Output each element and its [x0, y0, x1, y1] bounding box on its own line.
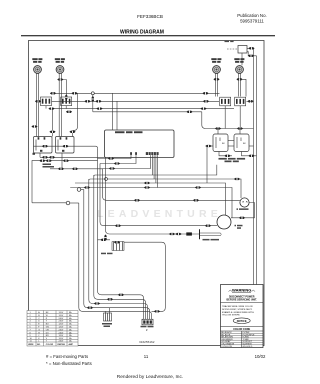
svg-text:Y-YELLOW: Y-YELLOW [221, 346, 232, 348]
svg-text:#: # [146, 328, 148, 332]
connector on motor wire [115, 225, 121, 227]
connector h5 b [49, 156, 55, 158]
connector bundle b1 [118, 294, 124, 296]
connector on SU1 leads [31, 125, 37, 127]
svg-text:GD-GOLD: GD-GOLD [243, 346, 253, 348]
relay K1 label [225, 41, 234, 43]
chart table [27, 311, 78, 347]
wire limiter bottoms [46, 106, 66, 109]
lock motor label [102, 323, 112, 327]
connector r2 [234, 178, 240, 180]
wire EOC left pins [98, 155, 151, 169]
svg-text:NO.: NO. [37, 344, 41, 346]
connector on bus h2 left [95, 100, 101, 102]
surface unit SU1 [34, 66, 42, 74]
terminal ring T2 [66, 201, 70, 205]
wire bundle verticals [70, 148, 240, 319]
surface unit SU1 label [32, 58, 42, 63]
wire S1 S2 feeds [202, 112, 257, 156]
surface unit SU4 [236, 66, 244, 74]
connector relay b [248, 55, 254, 57]
connector relay a [248, 47, 254, 49]
svg-text:BK: BK [222, 143, 225, 145]
lock motor component [104, 308, 112, 321]
connector block label [141, 326, 154, 328]
connector on bus h3 left [48, 107, 54, 109]
svg-text:240V: 240V [59, 332, 64, 334]
connector h6 c [63, 160, 69, 162]
svg-text:WIRING DIAGRAM: WIRING DIAGRAM [120, 30, 164, 36]
svg-text:120V: 120V [59, 335, 64, 337]
svg-text:NOTICE: NOTICE [237, 319, 247, 323]
svg-text:120V: 120V [59, 312, 64, 314]
connector inside SW2 [62, 145, 68, 147]
wire relay dashed lead [227, 48, 238, 50]
svg-text:BK: BK [243, 143, 246, 145]
motor label [235, 225, 243, 229]
svg-text:5995379111: 5995379111 [240, 18, 264, 23]
wire SU3 SU4 leads [215, 73, 246, 96]
wire EOC right pins [152, 155, 157, 187]
svg-text:W: W [46, 315, 48, 317]
connector r1 [195, 186, 201, 188]
wire lamp to motor link [231, 203, 254, 218]
connector vertical on bundle [104, 234, 106, 240]
wire cross runs to right side [70, 165, 241, 218]
svg-text:RATING: RATING [58, 343, 66, 346]
terminal ring T1 [77, 188, 81, 192]
limiter H4 [235, 97, 246, 106]
wire loop from oven light to lock [124, 242, 165, 311]
surface unit SU4 label [234, 58, 244, 63]
junction node J2 [105, 178, 108, 181]
connector h5 a [42, 156, 48, 158]
svg-text:120V: 120V [59, 315, 64, 317]
connector under SU4 [236, 78, 242, 80]
oven lamp OL [240, 198, 249, 207]
connector h7 a [58, 168, 64, 170]
svg-text:240V: 240V [59, 318, 64, 320]
oven lamp label [237, 208, 249, 210]
bake element note text [43, 164, 55, 168]
connector r3 [144, 182, 150, 184]
svg-text:YELLOW STRIPE.: YELLOW STRIPE. [222, 315, 241, 317]
svg-text:240V: 240V [59, 321, 64, 323]
connector above SW2 [69, 131, 75, 133]
connector lamp link [239, 217, 245, 219]
svg-text:BEFORE SERVICING UNIT.: BEFORE SERVICING UNIT. [227, 298, 258, 301]
svg-text:* = Non-Illustrated Parts: * = Non-Illustrated Parts [46, 361, 92, 366]
wire H4 to bus [247, 100, 254, 102]
surface unit SU3 label [211, 58, 221, 63]
svg-text:11: 11 [144, 354, 149, 359]
svg-text:LEADVENTURE: LEADVENTURE [97, 208, 222, 220]
svg-text:NOTED FIRST, STRIPE NEXT:: NOTED FIRST, STRIPE NEXT: [222, 309, 253, 311]
oven switch S2 [234, 134, 249, 152]
oven switch S1 [213, 134, 228, 152]
connector block CB [142, 319, 153, 325]
chart table text [28, 311, 73, 346]
connector above S1 [215, 127, 221, 129]
svg-text:240V: 240V [59, 341, 64, 343]
diagram frame [29, 41, 265, 346]
connector right of H4 [247, 100, 253, 102]
svg-text:FEF336BCB: FEF336BCB [137, 14, 163, 19]
connector on bus h2 mid [84, 100, 90, 102]
svg-text:120V: 120V [59, 327, 64, 329]
limiter H3 [220, 97, 231, 106]
svg-text:TRACER WIRE: WIRE COLOR: TRACER WIRE: WIRE COLOR [222, 305, 253, 308]
connector EOC a [108, 157, 114, 159]
svg-text:Publication No.: Publication No. [237, 13, 267, 18]
connector h7 b [72, 168, 78, 170]
connector on motor wire right [205, 225, 211, 227]
connector below S2 [248, 155, 254, 157]
connector on bus h4 [186, 111, 192, 113]
connector on bus h3 right [200, 107, 206, 109]
connector on bus h4 left [66, 111, 72, 113]
svg-text:AMP: AMP [69, 343, 74, 346]
broil element BE [186, 229, 221, 239]
connector above SW1 [49, 131, 55, 133]
svg-text:240V: 240V [59, 329, 64, 331]
svg-text:# = Fast-moving Parts: # = Fast-moving Parts [46, 354, 88, 359]
title underline [21, 35, 275, 37]
svg-text:COLOR CODE: COLOR CODE [233, 328, 250, 331]
surface switch SW2 [56, 137, 75, 154]
connector r1b [144, 186, 150, 188]
broil element connector pair [169, 233, 175, 235]
electronic oven control EOC [105, 130, 175, 158]
warning box [221, 285, 264, 348]
connector on bus h1 mid [71, 92, 77, 94]
limiter H2 [61, 97, 72, 106]
wire from door lens down [206, 146, 208, 183]
connector oven light top [114, 241, 120, 243]
connector h6 b [46, 160, 52, 162]
wire limiter bottoms to switch bus [225, 106, 240, 129]
connector r4 [84, 186, 90, 188]
connector oven light left [100, 239, 106, 241]
connector below S1 [224, 155, 230, 157]
warning color table [221, 331, 264, 348]
pin mark below SW1 [33, 153, 36, 155]
surface unit SU3 [213, 66, 221, 74]
connector above S2 [237, 127, 243, 129]
wire SW outputs [32, 153, 106, 203]
oven light assembly [98, 240, 125, 251]
connector P2 under SU2 [57, 78, 63, 80]
svg-text:COLOR: COLOR [46, 344, 54, 346]
svg-text:Rendered by LeadVenture, Inc.: Rendered by LeadVenture, Inc. [117, 374, 183, 380]
connector EOC b [114, 162, 120, 164]
wire SU2 leads [59, 73, 66, 136]
oven light label [101, 253, 113, 255]
connector on lamp feed wire [134, 199, 140, 201]
connector bundle b3 [94, 302, 100, 304]
wire relay leads right [242, 48, 257, 285]
wire bus L1 [50, 93, 234, 130]
wire feeds to SW1 SW2 [53, 93, 78, 136]
connector on bus h1 right [202, 92, 208, 94]
surface switch SW1 [34, 137, 53, 154]
wire SU1 leads [36, 73, 38, 136]
connector left of S1 [205, 145, 211, 147]
motor M1 [217, 215, 231, 229]
connector bundle b2 [107, 298, 113, 300]
relay K1 [238, 46, 247, 54]
junction node J1 [91, 92, 94, 95]
connector inside SW1 [42, 145, 48, 147]
svg-text:J: J [38, 335, 39, 337]
svg-text:EXAMPLE: GREEN WIRE WITH: EXAMPLE: GREEN WIRE WITH [222, 311, 254, 314]
connector on bus h3 mid [96, 107, 102, 109]
limiter H1 [41, 97, 52, 106]
connector h6 a [39, 160, 45, 162]
connector on junction drop [92, 96, 94, 102]
connector vertical branch [65, 94, 67, 100]
connector on bus h2 right [203, 100, 209, 102]
surface unit SU2 [56, 66, 64, 74]
surface unit SU2 label [55, 58, 65, 63]
connector on bus h2 far left [35, 100, 41, 102]
connector on bus h1 left [50, 92, 56, 94]
connector on lamp feed wire right [193, 199, 199, 201]
svg-text:120V: 120V [59, 324, 64, 326]
connector lock wire [154, 310, 160, 312]
oven door switch label [219, 158, 246, 162]
svg-text:316255162: 316255162 [139, 340, 155, 344]
svg-text:WARNING: WARNING [232, 288, 251, 293]
connector EOC c [109, 167, 115, 169]
connector under SU3 [213, 78, 219, 80]
svg-text:10/02: 10/02 [255, 354, 266, 359]
wire through switches [34, 146, 98, 148]
broil element label [203, 239, 220, 241]
connector bundle b4 [87, 307, 93, 309]
svg-text:WIRE: WIRE [28, 344, 34, 346]
